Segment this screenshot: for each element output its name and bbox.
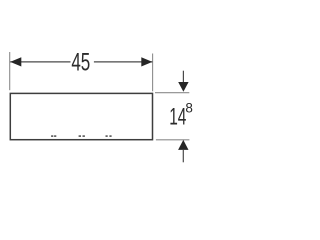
arrowhead down xyxy=(178,82,188,92)
height dim lower tail line xyxy=(182,150,184,163)
extension line bottom (height dim) xyxy=(156,139,190,141)
product outline rectangle xyxy=(10,93,152,139)
mounting mark pair 3 (dashes) xyxy=(106,135,112,137)
svg-text:14: 14 xyxy=(169,103,186,131)
dimension line 45, left segment xyxy=(10,61,70,63)
dimension text 45 xyxy=(71,50,90,77)
arrowhead left (points left) xyxy=(10,57,21,66)
mounting mark pair 2 (dashes) xyxy=(79,135,85,137)
svg-text:45: 45 xyxy=(71,50,90,77)
extension line top (height dim) xyxy=(155,92,189,94)
dimension text 14 xyxy=(169,103,186,131)
arrowhead right (points right) xyxy=(141,57,152,66)
mounting mark pair 1 (dashes) xyxy=(51,135,56,137)
dimension line 45, right segment xyxy=(94,61,152,63)
svg-text:8: 8 xyxy=(185,99,193,115)
arrowhead up xyxy=(178,140,188,150)
dimension text superscript 8 xyxy=(185,99,193,115)
extension line left (width dim) xyxy=(9,52,11,90)
extension line right (width dim) xyxy=(152,54,154,92)
height dim upper tail line xyxy=(182,71,184,83)
